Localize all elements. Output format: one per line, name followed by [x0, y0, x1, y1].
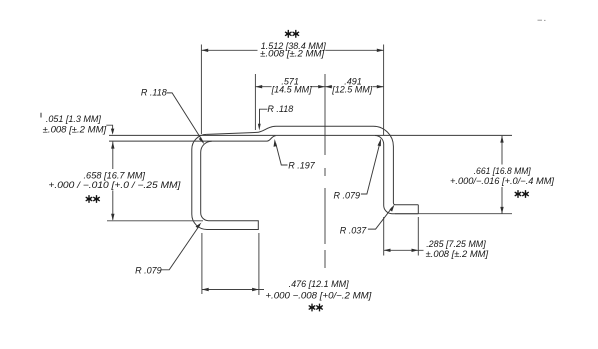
svg-text:±.008 [±.2 MM]: ±.008 [±.2 MM]: [426, 249, 489, 259]
svg-text:[14.5 MM]: [14.5 MM]: [271, 85, 313, 95]
profile: right flange end cap, flange bottom, bottom-right outer bend, right wall inner, top-right inner bend R.079: [375, 136, 418, 214]
profile: top surface (coined tab, joggle ramp R.118, upper web, top-right outer bend, right wall outer, R.037 fillet, right flange top): [207, 126, 419, 205]
dim .658 arrows: [111, 142, 114, 149]
dim .476 left extension line: [201, 233, 203, 294]
scan smudge artifact (top right): [538, 19, 546, 21]
dim .661 dimension line: [501, 136, 503, 165]
double asterisk note (top, for 1.512): [285, 30, 299, 38]
dim .476 dimension line: [202, 289, 264, 291]
leader R .118 (joggle upper radius, bracket style): [260, 109, 268, 125]
profile: left outer wall with top-left and bottom-left outer bend radii: [192, 134, 207, 229]
dim .051 arrow: [111, 129, 114, 135]
profile: coined tab inner surface with joggle ramp R.197 (also .051 lower extension line): [109, 136, 276, 141]
svg-text:R .079: R .079: [135, 266, 162, 276]
dim .051 leader bracket: [106, 125, 112, 130]
dim 1.512 left extension line: [200, 45, 202, 135]
dim .571 left extension line: [254, 74, 256, 130]
svg-text:.476 [12.1 MM]: .476 [12.1 MM]: [289, 279, 350, 289]
dim .658 bottom extension line: [107, 220, 203, 222]
dim .658 dimension line: [112, 142, 114, 169]
leader R .037 (bottom-right inner fillet): [368, 207, 393, 229]
dim .491 arrows: [325, 85, 332, 88]
double asterisk note (right, for .661): [515, 190, 529, 198]
dim .571 arrows: [255, 85, 262, 88]
svg-text:R .037: R .037: [340, 226, 368, 236]
dim .571 / .491 dimension line: [255, 86, 271, 88]
svg-text:+.000 / −.010 [+.0 / −.25 MM]: +.000 / −.010 [+.0 / −.25 MM]: [48, 180, 181, 190]
svg-text:±.008 [±.2 MM]: ±.008 [±.2 MM]: [43, 125, 107, 135]
leader R .079 (bottom-left outer bend): [161, 225, 200, 270]
dim .285 right extension line: [417, 217, 419, 256]
svg-text:R .118: R .118: [267, 104, 293, 114]
svg-text:±.008 [±.2 MM]: ±.008 [±.2 MM]: [260, 49, 325, 59]
svg-text:+.000/−.016 [+.0/−.4 MM]: +.000/−.016 [+.0/−.4 MM]: [450, 176, 555, 186]
dim .476 arrows: [202, 288, 209, 291]
dim .285 dimension line: [384, 249, 424, 251]
leader R .197 (joggle lower radius): [276, 144, 288, 166]
svg-text:.051 [1.3 MM]: .051 [1.3 MM]: [46, 114, 102, 124]
leader R .118 (top-left outer bend): [167, 93, 204, 142]
dim 1.512 / .491 right extension line: [383, 45, 385, 136]
profile: left wall inner, bottom-left inner bend, left flange top, end cap, flange bottom: [201, 141, 259, 229]
dim 1.512 arrows: [201, 49, 208, 52]
dim .285 arrows: [384, 249, 391, 252]
double asterisk note (left, for .658): [86, 195, 100, 203]
svg-text:R .079: R .079: [334, 191, 361, 201]
svg-text:.661 [16.8 MM]: .661 [16.8 MM]: [474, 166, 531, 176]
double asterisk note (bottom, for .476): [309, 304, 323, 312]
svg-text:[12.5 MM]: [12.5 MM]: [331, 85, 373, 95]
drawing border tick (left margin): [40, 113, 42, 118]
svg-text:R .118: R .118: [141, 88, 167, 98]
centerline (dashed): [324, 74, 326, 268]
dim 1.512 dimension line: [201, 49, 257, 51]
svg-text:.658 [16.7 MM]: .658 [16.7 MM]: [84, 171, 146, 181]
profile: long inner-surface datum line (also .051 upper and .661 upper extension line): [109, 134, 512, 136]
dimension arrowheads: [111, 49, 504, 292]
dim .661 arrows: [500, 136, 503, 143]
svg-text:.285 [7.25 MM]: .285 [7.25 MM]: [426, 239, 486, 249]
leader R .079 (top-right inner bend): [361, 143, 380, 195]
svg-text:+.000 −.008 [+0/−.2 MM]: +.000 −.008 [+0/−.2 MM]: [265, 291, 372, 301]
svg-text:R .197: R .197: [288, 161, 316, 171]
dim .661 bottom extension line: [395, 213, 512, 215]
dim .476 right extension line: [258, 233, 260, 295]
dim .285 left extension line: [383, 217, 385, 256]
